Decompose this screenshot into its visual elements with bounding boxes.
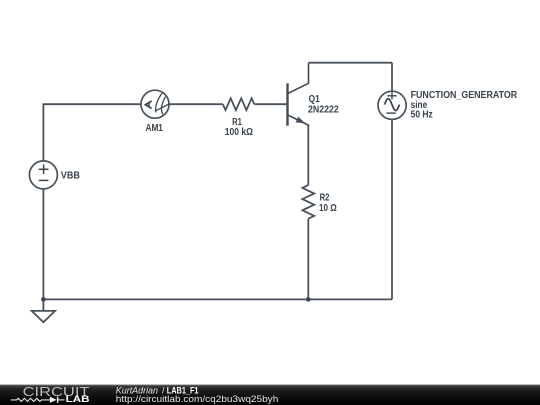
wire: Q1 emitter down to R2 [307,125,309,185]
function generator source [378,91,406,119]
svg-text:AM1: AM1 [146,123,164,134]
voltage source VBB [29,161,57,189]
svg-text:50 Hz: 50 Hz [411,110,433,121]
wire: collector to top-right corner [309,62,393,64]
wire: ammeter to R1 [169,103,223,105]
footer bar [0,385,540,405]
svg-text:R2: R2 [320,193,330,204]
svg-text:VBB: VBB [61,170,80,181]
CircuitLab logo diode [50,397,65,403]
svg-text:10 Ω: 10 Ω [319,203,337,214]
ammeter AM1 [141,90,169,118]
svg-text:Q1: Q1 [309,94,321,105]
transistor Q1 2N2222 [288,63,309,126]
svg-text:100 kΩ: 100 kΩ [225,127,253,138]
resistor R1 [223,98,254,110]
wire: R2 to bottom rail [307,219,309,300]
wire: left riser and top-left segment to ammeter [43,104,141,161]
wire: top-right corner down to function generator [391,63,393,92]
ground symbol [32,311,55,322]
svg-text:http://circuitlab.com/cq2bu3wq: http://circuitlab.com/cq2bu3wq25byh [116,394,279,404]
CircuitLab logo resistor zigzag [11,398,50,401]
wire: bottom horizontal rail [43,298,392,300]
wire: VBB bottom to ground junction [42,189,44,300]
svg-text:LAB: LAB [66,394,90,404]
svg-text:2N2222: 2N2222 [308,105,339,116]
junction node: R2 / bottom rail [306,297,311,302]
wire: function generator to bottom-right corner [391,119,393,299]
wire: ground stub [42,299,44,311]
junction node: ground rail / VBB [41,297,46,302]
wire: R1 to Q1 base [254,103,287,105]
resistor R2 [302,185,314,219]
